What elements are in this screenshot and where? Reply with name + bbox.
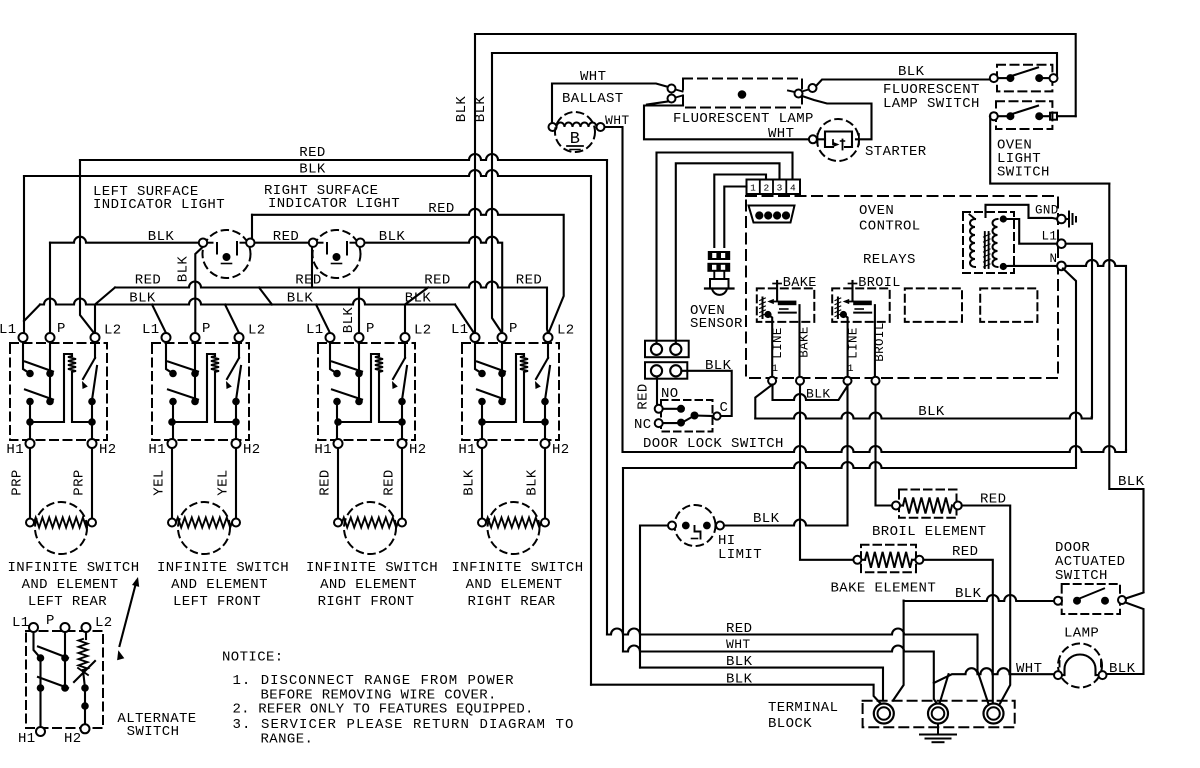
relay bake input stub [776, 281, 778, 301]
svg-text:3: 3 [777, 183, 783, 194]
oven sensor bulb [710, 279, 729, 289]
L1 terminal [1057, 239, 1066, 248]
wire BLK feed line [24, 170, 591, 176]
svg-text:PRP: PRP [72, 469, 88, 495]
terminal block dashed box [863, 701, 1015, 728]
transformer primary coil [970, 219, 975, 267]
element E2 dashed circle [178, 502, 230, 554]
alternate switch P lead [64, 632, 66, 688]
svg-text:RIGHT REAR: RIGHT REAR [467, 594, 555, 610]
svg-text:BLK: BLK [955, 586, 982, 602]
door lock blade [684, 416, 714, 422]
oven light switch right wire [1057, 115, 1076, 117]
svg-text:BLK: BLK [918, 404, 945, 420]
svg-text:LIMIT: LIMIT [718, 547, 762, 563]
infinite switch S2 pilot loop [172, 354, 215, 422]
alternate switch L2 lead lower [83, 670, 85, 726]
lamp filament [1062, 655, 1098, 676]
wire diagonal to L1 switch4 [455, 305, 474, 334]
svg-text:LINE: LINE [847, 327, 861, 359]
svg-text:BLK: BLK [1109, 661, 1136, 677]
oven light switch box [996, 101, 1052, 129]
wire bus upper [115, 282, 548, 334]
svg-text:DOOR LOCK SWITCH: DOOR LOCK SWITCH [643, 436, 784, 452]
svg-text:BLK: BLK [287, 291, 314, 307]
wire BLK rail 2 [591, 685, 882, 705]
transformer core [984, 232, 986, 268]
svg-text:H1: H1 [18, 731, 36, 747]
wire oven light feed drop [1109, 184, 1143, 592]
svg-text:H1: H1 [6, 442, 24, 458]
ground symbol terminal block [937, 724, 939, 735]
wire pin2 to oven sensor [714, 175, 766, 248]
svg-text:RED: RED [726, 621, 752, 637]
infinite switch S4 pilot loop [482, 354, 524, 422]
hi limit bimetal [695, 526, 701, 539]
infinite switch S1 L2 lead [94, 343, 96, 359]
infinite switch S1 box [10, 343, 107, 440]
svg-text:RED: RED [382, 469, 398, 495]
infinite switch S4 contact dots [478, 370, 486, 378]
infinite switch S2 P lead [194, 343, 196, 401]
svg-text:P: P [46, 613, 55, 629]
infinite switch S3 contact dots [333, 370, 341, 378]
svg-text:L1: L1 [142, 322, 160, 338]
wire WHT ballast to starter net [605, 127, 623, 452]
infinite switch S3 H1 branch [336, 402, 338, 440]
svg-text:P: P [366, 321, 375, 337]
wire BLK lamp to switch [816, 80, 990, 87]
transformer dashed box [963, 212, 1014, 273]
infinite switch S3 P lead [358, 343, 360, 401]
oven sensor connector blocks [708, 251, 730, 260]
ballast coil [557, 123, 597, 127]
terminal T1 [874, 704, 894, 724]
wire pin4 to door lock [657, 153, 793, 345]
wire diagonal to L2 switch2 [225, 305, 239, 334]
svg-text:H1: H1 [148, 442, 166, 458]
hi limit dashed circle [675, 505, 716, 546]
svg-text:PRP: PRP [10, 469, 26, 495]
infinite switch S4 H2 branch [544, 402, 546, 440]
infinite switch S2 H1 branch [172, 402, 174, 440]
wire relay L1 line [755, 413, 1091, 419]
infinite switch S1 L2 blade [83, 358, 95, 379]
indicator light right terminals [309, 239, 317, 247]
infinite switch S3 blade1 [332, 362, 362, 372]
wire P drop switch1 [49, 243, 51, 333]
infinite switch S1 L2 contact [92, 366, 97, 400]
wire BLK rail [640, 668, 883, 699]
wire RED rail [607, 629, 989, 705]
indicator light right dot [333, 253, 341, 261]
infinite switch S4 H1 branch [481, 402, 483, 440]
starter box [825, 132, 852, 148]
infinite switch S2 L1 lead [166, 343, 173, 374]
relay broil arrow [846, 301, 854, 303]
infinite switch S1 blade2 [25, 390, 53, 400]
lamp dashed circle [1058, 644, 1102, 688]
infinite switch S1 contact dots [26, 370, 34, 378]
GND terminal [1057, 215, 1066, 224]
svg-text:INFINITE SWITCH: INFINITE SWITCH [7, 560, 139, 576]
wire line bus lower [755, 385, 772, 419]
bake element coil [865, 552, 912, 568]
fluorescent lamp dashed box [683, 79, 802, 108]
svg-text:RED: RED [273, 229, 299, 245]
starter terminal [809, 135, 817, 143]
svg-text:BLK: BLK [341, 307, 357, 334]
infinite switch S4 L2 blade [536, 358, 548, 379]
fluorescent lamp switch box [997, 65, 1052, 92]
oven light switch blade [1013, 106, 1038, 114]
infinite switch S4 blade1 [477, 362, 505, 372]
relay bake box [757, 288, 815, 322]
element E3 coil [342, 518, 398, 528]
transformer primary top lead [970, 215, 976, 220]
svg-text:BLK: BLK [1118, 474, 1145, 490]
wire T1 drop [893, 601, 904, 701]
element E2 wires [171, 448, 173, 518]
infinite switch S1 blade1 [25, 362, 53, 372]
wire RED between indicator lights [255, 242, 308, 244]
transformer secondary coil [993, 219, 998, 267]
element E1 coil [34, 518, 88, 528]
element E4 terminals [478, 519, 486, 527]
door lock connector upper [645, 341, 689, 358]
infinite switch S3 L2 blade [393, 358, 405, 379]
wire line bus upper [773, 385, 848, 400]
wire broil output to element [876, 385, 893, 506]
door lock connector lower [645, 362, 687, 379]
wire broil line drop [846, 385, 848, 526]
bake element terminals [853, 556, 861, 564]
door actuated switch right wires [1126, 593, 1144, 599]
wire RED feed line [80, 154, 607, 160]
element E4 wires [481, 448, 483, 518]
infinite switch S3 H2 branch [401, 402, 403, 440]
wire L1 to relay bus [1066, 244, 1092, 417]
svg-text:BLK: BLK [898, 64, 925, 80]
fluorescent lamp left terminals [668, 85, 676, 93]
infinite switch S4 box [462, 343, 559, 440]
wire WHT rail [623, 646, 937, 705]
svg-text:BROIL ELEMENT: BROIL ELEMENT [872, 524, 986, 540]
starter left wire [817, 138, 825, 140]
wire pin3 to door lock [676, 163, 780, 344]
fluorescent lamp switch blade [1013, 68, 1038, 76]
indicator light left dashed circle [203, 230, 251, 278]
wire diagonal to L1 switch3 [316, 305, 330, 334]
wire BLK drop to L1 switch4 [474, 34, 476, 333]
relay bake coil bar [778, 301, 797, 306]
svg-text:RED: RED [295, 273, 321, 289]
wire BLK to left indicator light [50, 237, 199, 243]
wire T2 branch diagonal [940, 674, 949, 702]
relay broil coil bar [853, 301, 872, 306]
svg-text:SWITCH: SWITCH [997, 165, 1050, 181]
svg-text:RED: RED [424, 273, 450, 289]
infinite switch S2 terminals [162, 333, 171, 342]
svg-text:BLK: BLK [726, 654, 753, 670]
svg-text:BROIL: BROIL [873, 322, 887, 362]
oven light switch contacts [1006, 112, 1014, 120]
svg-text:WHT: WHT [768, 126, 794, 142]
wire bake RED [923, 560, 992, 704]
svg-text:L1: L1 [451, 322, 469, 338]
infinite switch S3 pilot loop [338, 354, 379, 422]
broil element dashed box [899, 490, 957, 518]
relay empty box 1 [905, 288, 962, 322]
relay bake hatch [780, 308, 788, 310]
element E4 dashed circle [488, 502, 540, 554]
infinite switch S2 L2 contact [236, 366, 241, 400]
svg-text:2. REFER ONLY TO FEATURES EQUI: 2. REFER ONLY TO FEATURES EQUIPPED. [233, 702, 534, 718]
alternate switch H1 branch [39, 658, 41, 727]
svg-text:C: C [720, 400, 729, 416]
svg-text:LEFT REAR: LEFT REAR [28, 594, 107, 610]
infinite switch S4 L2 contact [545, 366, 550, 400]
svg-text:H1: H1 [458, 442, 476, 458]
fluorescent lamp dot [738, 90, 747, 99]
svg-text:RED: RED [428, 201, 454, 217]
infinite switch S3 box [318, 343, 415, 440]
svg-text:L1: L1 [1042, 230, 1058, 244]
svg-text:H2: H2 [552, 442, 570, 458]
fixture box [644, 106, 809, 140]
ballast terminals [549, 123, 557, 131]
door lock NC contact [663, 422, 677, 424]
infinite switch S1 junction dots [26, 418, 34, 426]
svg-text:BLK: BLK [462, 469, 478, 496]
svg-text:RIGHT FRONT: RIGHT FRONT [318, 594, 415, 610]
svg-text:H1: H1 [314, 442, 332, 458]
oven sensor stubs [713, 272, 715, 279]
svg-text:L1: L1 [306, 322, 324, 338]
svg-text:RED: RED [516, 273, 542, 289]
svg-text:BLK: BLK [473, 96, 489, 123]
svg-text:AND ELEMENT: AND ELEMENT [22, 577, 119, 593]
svg-text:1: 1 [750, 183, 756, 194]
infinite switch S2 L2 lead [238, 343, 240, 359]
svg-text:BAKE: BAKE [798, 326, 812, 358]
infinite switch S3 junction dots [334, 418, 342, 426]
alternate switch terminals [29, 623, 38, 632]
element E3 terminals [334, 519, 342, 527]
svg-text:L2: L2 [557, 323, 575, 339]
svg-text:L2: L2 [414, 323, 432, 339]
infinite switch S3 L1 lead [330, 343, 337, 374]
svg-text:WHT: WHT [580, 69, 606, 85]
svg-text:P: P [509, 321, 518, 337]
door actuated switch terminals [1054, 597, 1062, 605]
N terminal [1057, 262, 1066, 271]
svg-text:AND ELEMENT: AND ELEMENT [171, 577, 268, 593]
infinite switch S1 P lead [49, 343, 51, 401]
door lock switch dashed box [661, 400, 713, 432]
wire oven light switch feed [990, 116, 1109, 183]
wire hi limit to relays BLK [724, 520, 848, 526]
relay broil line lead [840, 311, 847, 318]
svg-text:RED: RED [952, 544, 978, 560]
wire GND [986, 205, 1058, 219]
svg-text:1: 1 [847, 363, 854, 375]
wire lamp to starter right [802, 96, 872, 139]
alternate switch L2 coil [85, 632, 87, 639]
svg-text:2: 2 [763, 183, 769, 194]
wire RED riser to upper wire [251, 215, 253, 243]
broil element coil [903, 498, 952, 514]
svg-text:1: 1 [772, 363, 779, 375]
relay bake arrow [770, 301, 778, 303]
svg-text:P: P [202, 321, 211, 337]
svg-text:L1: L1 [0, 322, 17, 338]
wire WHT lamp branch [934, 668, 1054, 683]
connector 1-2-3-4 box [747, 180, 801, 195]
element E1 wires [29, 448, 31, 518]
wire BLK drop to P switch4 [492, 53, 502, 333]
wire left light to P switch2 drop [195, 247, 202, 333]
svg-text:NC: NC [634, 417, 652, 433]
alternate switch box [26, 631, 103, 728]
wire N diagonal [1063, 269, 1076, 469]
fluorescent lamp left lower lead [647, 102, 668, 105]
svg-text:L2: L2 [104, 323, 122, 339]
infinite switch S4 L2 lead [547, 343, 549, 359]
relay bake output lead [798, 305, 800, 377]
alternate switch blade2 [38, 677, 68, 688]
svg-text:OVEN: OVEN [859, 203, 894, 219]
lamp ticks [1059, 661, 1061, 667]
door actuated switch box [1062, 584, 1120, 614]
svg-text:CONTROL: CONTROL [859, 219, 921, 235]
svg-text:H2: H2 [99, 442, 117, 458]
ballast dashed circle [555, 112, 595, 152]
lamp terminals [1054, 671, 1062, 679]
wire bus upper left diagonal to L2 switch1 [95, 288, 115, 334]
svg-text:INDICATOR LIGHT: INDICATOR LIGHT [268, 196, 400, 212]
infinite switch S4 terminals [471, 333, 480, 342]
infinite switch S2 contact dots [169, 370, 177, 378]
svg-text:H2: H2 [243, 442, 261, 458]
indicator light left electrodes [216, 243, 218, 254]
starter dashed circle [817, 119, 859, 161]
wire crossover diagonal 2 [405, 288, 428, 305]
infinite switch S4 junction dots [478, 418, 486, 426]
svg-text:RED: RED [636, 383, 652, 409]
wire BLK to door actuated switch [904, 595, 1054, 601]
svg-text:LAMP: LAMP [1064, 626, 1099, 642]
infinite switch S3 L2 contact [402, 366, 407, 400]
wire RED upper run to L2 switch4 [252, 209, 564, 333]
svg-text:TERMINAL: TERMINAL [768, 700, 838, 716]
starter electrodes [833, 140, 837, 145]
wire L1 from secondary [1003, 219, 1057, 244]
indicator light left dot [223, 253, 231, 261]
wire BLK drop x24 to L1 switch1 [23, 176, 25, 333]
svg-text:WHT: WHT [726, 637, 751, 652]
indicator light right electrodes [326, 243, 328, 254]
infinite switch S2 blade1 [168, 362, 198, 372]
relay empty box 2 [980, 288, 1037, 322]
wire neutral WHT upper [623, 446, 1126, 452]
infinite switch S4 blade2 [477, 390, 505, 400]
infinite switch S4 P lead [501, 343, 503, 401]
relay bake armature [762, 298, 764, 319]
terminal T3 [984, 704, 1004, 724]
svg-text:BAKE: BAKE [783, 276, 817, 291]
svg-text:N: N [1050, 252, 1058, 266]
svg-text:P: P [57, 321, 66, 337]
element E2 coil [176, 518, 232, 528]
svg-text:AND ELEMENT: AND ELEMENT [320, 577, 417, 593]
wire BLK from right light [365, 237, 503, 332]
svg-text:WHT: WHT [605, 113, 630, 128]
wire N loop [1066, 260, 1126, 450]
svg-text:INDICATOR LIGHT: INDICATOR LIGHT [93, 197, 225, 213]
svg-text:SENSOR: SENSOR [690, 316, 743, 332]
svg-text:INFINITE SWITCH: INFINITE SWITCH [157, 560, 289, 576]
infinite switch S1 L1 lead [23, 343, 30, 374]
svg-text:BROIL: BROIL [858, 276, 901, 291]
svg-text:RED: RED [299, 145, 325, 161]
wire door lock C [682, 371, 732, 416]
wire BLK long drop x591 [590, 176, 592, 685]
wire RED drop x80 [80, 160, 94, 333]
svg-text:BALLAST: BALLAST [562, 91, 624, 107]
terminal T2 [928, 704, 948, 724]
pointer arrow [120, 581, 137, 646]
wire bus lower left diagonal to L1 switch1 [24, 305, 40, 322]
element E3 wires [337, 448, 339, 518]
indicator light left terminals [199, 239, 207, 247]
wire second top BLK [492, 53, 1057, 78]
svg-text:AND ELEMENT: AND ELEMENT [466, 577, 563, 593]
connector 4-dot [749, 206, 795, 223]
element E4 coil [486, 518, 541, 528]
svg-text:RED: RED [135, 273, 161, 289]
element E1 dashed circle [35, 502, 87, 554]
relay bake line lead [764, 311, 771, 318]
wire right light left terminal drop [311, 247, 313, 288]
svg-text:GND: GND [1035, 204, 1059, 218]
infinite switch S1 H1 branch [29, 402, 31, 440]
oven light switch wires [998, 115, 1007, 117]
svg-text:4: 4 [790, 183, 796, 194]
wire RED long drop x607 [606, 160, 608, 635]
element E3 dashed circle [344, 502, 396, 554]
svg-text:L1: L1 [12, 615, 30, 631]
svg-text:SWITCH: SWITCH [1055, 568, 1108, 584]
relay broil box [832, 288, 890, 322]
svg-text:BLK: BLK [379, 229, 406, 245]
fluorescent lamp right terminals [795, 90, 803, 98]
wire bus lower [40, 299, 455, 305]
infinite switch S3 L2 lead [404, 343, 406, 359]
svg-text:BLOCK: BLOCK [768, 716, 812, 732]
element E2 terminals [168, 519, 176, 527]
fluorescent lamp switch contacts [1006, 74, 1014, 82]
infinite switch S1 pilot loop [30, 354, 72, 422]
hi limit contacts [682, 522, 690, 530]
svg-text:STARTER: STARTER [865, 144, 927, 160]
svg-text:L2: L2 [95, 615, 113, 631]
svg-text:INFINITE SWITCH: INFINITE SWITCH [306, 560, 438, 576]
infinite switch S2 L2 blade [227, 358, 239, 379]
relay broil input stub [851, 281, 853, 301]
bake element dashed box [861, 545, 916, 572]
alternate switch blade1 [38, 647, 68, 659]
